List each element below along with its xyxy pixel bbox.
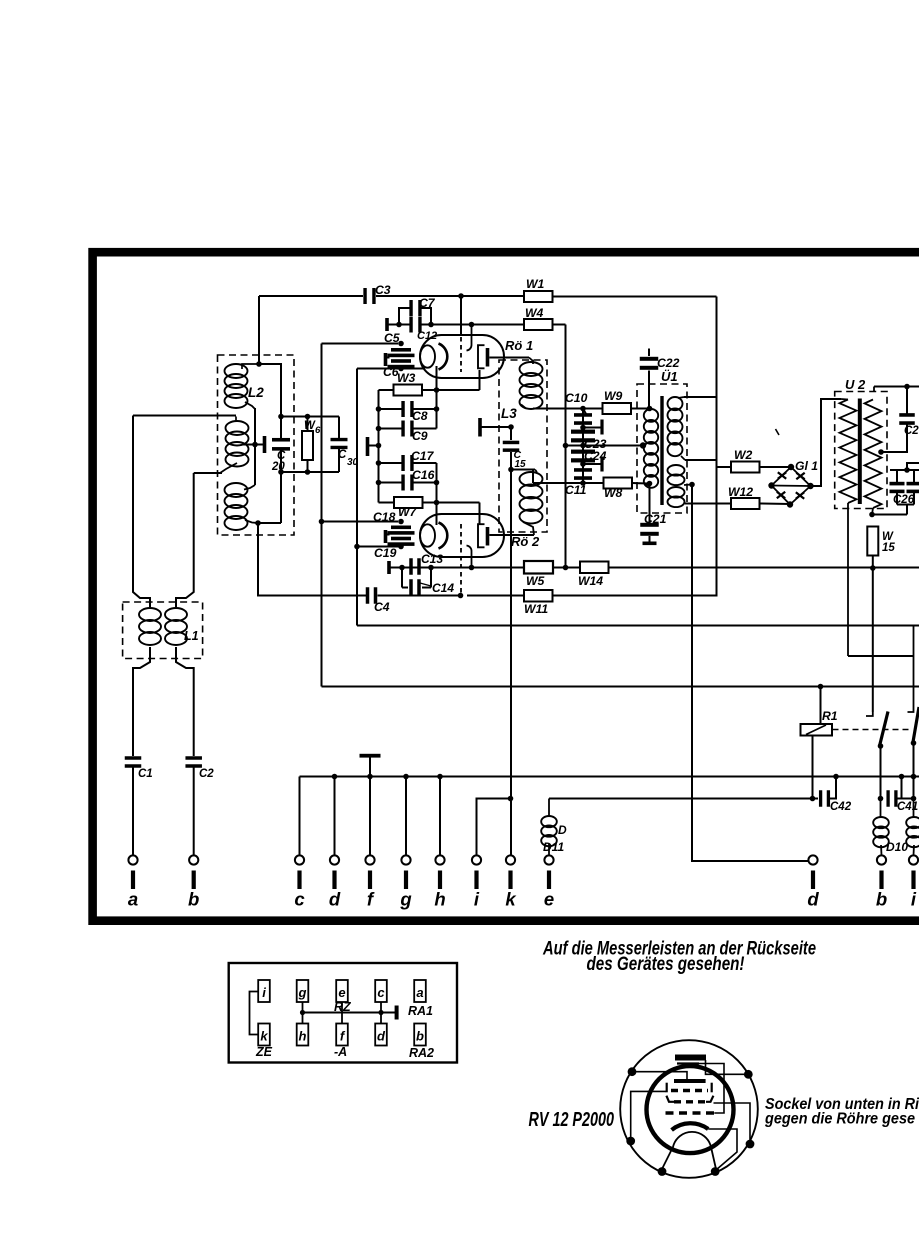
wire L2 w2 top out [133, 415, 236, 417]
resistor W3 [394, 385, 423, 396]
wire R1 top [820, 687, 822, 725]
wire C9 row [379, 428, 437, 430]
tube Roe1 cathode circle [420, 345, 435, 367]
relay R1 [801, 724, 833, 736]
socket pin 5 [658, 1167, 667, 1176]
wire C3 row left [259, 295, 363, 297]
core U2 [858, 399, 862, 505]
wire c drop [299, 777, 301, 856]
svg-text:W11: W11 [524, 602, 548, 616]
node C24-C11 [580, 461, 586, 467]
svg-text:RA1: RA1 [408, 1004, 433, 1018]
connector bracket i-k [250, 992, 259, 1035]
wire sec top lead [684, 396, 717, 398]
svg-text:b: b [876, 889, 887, 910]
coil D10 [873, 799, 889, 856]
wire W1 to right [553, 296, 717, 298]
wire C19 left [357, 546, 401, 548]
svg-text:gegen die Röhre gese: gegen die Röhre gese [764, 1111, 915, 1128]
linkage dashed [833, 729, 912, 731]
node C8 left [376, 406, 382, 412]
svg-text:U 2: U 2 [845, 377, 866, 392]
coil L2 winding 3 [225, 483, 259, 530]
tube Roe2 envelope [420, 514, 504, 557]
terminal a [128, 855, 138, 909]
socket pin 6 [711, 1167, 720, 1176]
wire C6 to cathode circle [401, 368, 425, 370]
node W3/cathode [434, 387, 440, 393]
node shield stub [376, 443, 382, 449]
shield stub C7 row [385, 318, 399, 331]
wire C8 row [379, 408, 437, 410]
capacitor C5 C6 stack [388, 348, 415, 368]
wire C12 to W4 [420, 324, 524, 326]
svg-text:C6: C6 [383, 365, 399, 379]
svg-text:W2: W2 [734, 448, 753, 462]
rectifier Gl1 [768, 464, 813, 508]
svg-text:C19: C19 [374, 546, 397, 560]
svg-text:b: b [416, 1029, 424, 1044]
node C8 right [434, 406, 440, 412]
node connector g [300, 1010, 305, 1015]
svg-text:Ü1: Ü1 [661, 369, 678, 384]
socket pin 4 [746, 1140, 755, 1149]
coil UE1 secondary lower [668, 465, 693, 507]
resistor W14 [580, 562, 609, 574]
coil L2 winding 1 [225, 364, 260, 409]
wire W6 bottom rail [281, 471, 339, 473]
socket cathode arc [672, 1123, 709, 1130]
wire rail 656 [848, 655, 914, 657]
connector cell e [336, 980, 348, 1002]
capacitor C24 [571, 450, 595, 463]
svg-text:C4: C4 [374, 600, 390, 614]
connector box [229, 963, 457, 1063]
wire C26 bottom bracket [897, 493, 914, 515]
coil L1 winding right [165, 608, 187, 645]
svg-text:15: 15 [882, 542, 895, 554]
connector cell k2 [258, 1024, 270, 1046]
wire rail 625 [357, 625, 919, 627]
wire bus 776 [300, 776, 919, 778]
capacitor C23 [571, 430, 595, 443]
socket pin 2 [744, 1070, 753, 1079]
resistor W1 [524, 291, 553, 302]
wire L2 bottom drop [258, 523, 366, 596]
wire C6 left [357, 368, 401, 370]
terminal i right [909, 855, 918, 909]
wire U2 tap [881, 423, 907, 452]
coil D12 [906, 799, 919, 856]
node tap C23 line [563, 443, 569, 449]
svg-text:i: i [474, 889, 480, 910]
svg-text:a: a [128, 889, 138, 910]
connector stub g-h [302, 1002, 304, 1024]
resistor W4 [524, 319, 553, 330]
svg-text:30: 30 [347, 457, 359, 468]
svg-text:C: C [338, 449, 347, 461]
svg-text:d: d [329, 889, 341, 910]
svg-text:d: d [377, 1029, 386, 1044]
tube Roe2 grid dashes [460, 524, 462, 556]
svg-text:D10: D10 [886, 840, 908, 854]
wire C23 tap to primary [566, 445, 644, 447]
wire W6 leads [307, 417, 309, 473]
wire C25 top [906, 387, 908, 416]
svg-text:C22: C22 [657, 356, 680, 370]
resistor W11 [524, 590, 553, 602]
coil U2 left winding [840, 399, 857, 656]
wire W2 left [717, 466, 732, 468]
wire C2 to terminal b [193, 768, 195, 856]
tube Roe1 screen hook [467, 325, 472, 351]
socket pin 3 [626, 1137, 635, 1146]
wire C22 down [648, 371, 650, 409]
node C3/W1 to grid Roe1 [458, 293, 464, 299]
socket grid3 row [666, 1096, 713, 1102]
resistor W9 [603, 403, 632, 414]
capacitor C27 [907, 482, 919, 493]
resistor W5 [524, 561, 553, 574]
wire R1 bottom [812, 736, 814, 799]
node C6 bottom [398, 366, 404, 372]
svg-text:Rö 2: Rö 2 [511, 534, 540, 549]
svg-text:15: 15 [515, 459, 527, 470]
svg-text:RV 12 P2000: RV 12 P2000 [529, 1109, 615, 1131]
node R1 top [818, 684, 824, 690]
svg-text:RZ: RZ [334, 1000, 352, 1014]
svg-text:C3: C3 [375, 283, 391, 297]
wire C12 row [399, 324, 411, 326]
node primary tap [640, 442, 646, 448]
svg-text:W1: W1 [526, 277, 545, 291]
capacitor C11 [574, 468, 592, 480]
wire bias rail left [378, 390, 380, 503]
wire g drop [405, 777, 407, 856]
shield stub bias [366, 437, 379, 456]
svg-text:C7: C7 [419, 296, 436, 310]
connector cell i [258, 980, 270, 1002]
shield stub L3 [478, 418, 511, 437]
tube Roe1 anode bar [486, 348, 490, 367]
node C23-C24 [580, 443, 586, 449]
wire W3 left [379, 389, 394, 391]
svg-text:i: i [911, 889, 917, 910]
socket pin 1 [628, 1067, 637, 1076]
svg-text:L2: L2 [248, 385, 264, 400]
node C11 bottom [580, 480, 586, 486]
node C20 top rail [278, 414, 284, 420]
wire C22 stub top [648, 349, 650, 357]
connector cell a [414, 980, 426, 1002]
wire S2 down [913, 743, 915, 799]
wire W9 right [631, 408, 650, 410]
coil L3 lower [520, 470, 543, 536]
coil box UE1 [637, 384, 687, 513]
wire rail x357 [356, 369, 358, 626]
coil L2 winding 2 [220, 417, 249, 474]
terminal d [329, 855, 341, 909]
wire C23 branch [583, 427, 602, 429]
wire C10 tick [583, 409, 586, 415]
wire d drop [334, 777, 336, 856]
wire L2 tap lead [243, 444, 265, 446]
svg-text:a: a [416, 985, 423, 1000]
node Roe2 grid line bottom [458, 593, 464, 599]
wire W3 right [422, 389, 480, 391]
wire L3 tap down [510, 427, 512, 440]
wire C24 branch [583, 463, 602, 465]
svg-text:c: c [377, 985, 385, 1000]
node grid Roe2 row [469, 565, 475, 571]
svg-text:C1: C1 [138, 768, 153, 780]
wire h drop [439, 777, 441, 856]
node W5 W14 [563, 565, 569, 571]
wire U2 tap2 to W15 [872, 514, 907, 516]
wire C17 row [379, 462, 437, 464]
connector cell d2 [375, 1024, 387, 1046]
wire W11 right [553, 297, 717, 596]
capacitor C1 [125, 756, 142, 768]
svg-text:R1: R1 [822, 709, 838, 723]
node S2 bus [911, 774, 917, 780]
label C20 [271, 450, 286, 473]
node C26 bracket [904, 467, 910, 473]
connector bus RZ [303, 1012, 396, 1014]
wire C30 leads [338, 417, 340, 473]
svg-text:e: e [544, 889, 554, 910]
wire L3 lower hook [511, 469, 535, 471]
tube Roe1 anode bracket [478, 345, 485, 368]
svg-text:k: k [260, 1029, 268, 1044]
svg-text:C13: C13 [421, 552, 443, 566]
node C7 right [428, 322, 434, 328]
terminal k [505, 855, 517, 909]
node L3 tap [508, 424, 514, 430]
capacitor trimmer bar C24 [600, 457, 603, 472]
wire C41 bus stub [901, 777, 903, 799]
wire rail W5 row [390, 567, 919, 569]
svg-text:e: e [338, 985, 345, 1000]
wire C18 feed [322, 521, 399, 523]
svg-text:W9: W9 [604, 389, 623, 403]
wire C41 right [896, 798, 914, 800]
switch S2 [908, 626, 919, 746]
shield stub C18 [384, 530, 390, 543]
node connector c [378, 1010, 383, 1015]
resistor W8 [604, 478, 633, 489]
svg-text:Gl 1: Gl 1 [795, 459, 818, 473]
resistor W2 [731, 462, 760, 473]
svg-text:C2: C2 [199, 768, 214, 780]
socket grid4 row [666, 1111, 715, 1114]
wire Roe1 cathode down [436, 366, 438, 390]
svg-text:C2: C2 [904, 425, 919, 437]
svg-text:L3: L3 [501, 406, 517, 421]
core UE1 [660, 396, 663, 505]
node C20 bottom rail [278, 469, 284, 475]
node L2 top [256, 361, 262, 367]
wire C26 top bracket [890, 463, 919, 482]
resistor W6 [302, 431, 313, 460]
svg-text:k: k [505, 889, 517, 910]
capacitor C4 [366, 587, 378, 604]
coil box U2 [835, 392, 887, 509]
node primary bottom [647, 481, 653, 487]
wire Gl1 to U2 [811, 399, 842, 486]
tube Roe1 grid dashes [460, 337, 462, 372]
wire U2 right top [874, 386, 919, 388]
svg-text:6: 6 [315, 425, 321, 436]
label W15 [882, 531, 895, 554]
socket wire pin1 [632, 1072, 687, 1079]
wire UE1 tap down [692, 485, 808, 862]
wire rail 686 [322, 686, 919, 688]
svg-text:C5: C5 [384, 331, 400, 345]
node C10 top [580, 406, 586, 412]
coil L3 upper [520, 358, 543, 410]
capacitor C13 [387, 558, 421, 575]
connector bus bar [395, 1006, 399, 1020]
svg-text:C42: C42 [830, 801, 852, 813]
tick mark near U2 [776, 429, 780, 435]
svg-text:L1: L1 [184, 629, 199, 643]
capacitor C14 [402, 568, 431, 596]
wire C1 to terminal a [132, 768, 134, 856]
wire S1 to C41 [880, 746, 882, 799]
label C30 [338, 449, 359, 468]
wire f drop [369, 777, 371, 856]
wire Roe2 screen down [479, 503, 481, 525]
node R1 bottom joint [810, 796, 816, 802]
terminal e [544, 855, 554, 909]
wire antenna left drop [133, 416, 150, 608]
capacitor C3 [363, 288, 375, 304]
connector stub c-d [380, 1002, 382, 1024]
capacitor C21 [640, 484, 659, 546]
label W6 [304, 420, 321, 436]
svg-text:D: D [558, 823, 567, 837]
terminal d right [807, 855, 819, 909]
svg-text:W3: W3 [397, 371, 416, 385]
wire D11 row [549, 798, 818, 800]
wire rail W11 row [378, 595, 461, 597]
node sec center tap [689, 482, 695, 488]
node W6 bottom [305, 469, 311, 475]
node C7 left [396, 322, 402, 328]
capacitor C30 [331, 438, 348, 449]
wire Roe2 anode lead [489, 534, 534, 536]
capacitor C10 [574, 413, 592, 425]
svg-text:g: g [399, 889, 411, 910]
switch S1 [866, 712, 888, 749]
svg-text:W4: W4 [525, 306, 544, 320]
svg-text:i: i [262, 985, 266, 1000]
capacitor trimmer bar C23 [600, 420, 603, 435]
capacitor C15 [503, 441, 520, 452]
socket key [675, 1055, 706, 1064]
capacitor C26 [890, 482, 905, 493]
wire grid feed Roe1 [460, 296, 462, 336]
shield stub L2 tap [263, 436, 267, 453]
wire C3 drop [258, 296, 260, 364]
resistor W7 [394, 497, 423, 508]
terminal b right [876, 855, 887, 909]
wire Roe2 cathode up [436, 503, 438, 526]
node C19 rail [354, 544, 360, 550]
wire W12 right [760, 503, 791, 506]
wire W9 left [583, 408, 603, 410]
socket wire pin2 [706, 1060, 749, 1074]
svg-text:h: h [299, 1029, 307, 1044]
capacitor C17 [401, 455, 413, 471]
node rail x321 C18 [319, 519, 325, 525]
wire Roe1 anode lead [489, 357, 529, 359]
capacitor C2 [185, 756, 202, 768]
connector cell f2 [336, 1024, 348, 1046]
wire switch1 feed [872, 568, 874, 712]
terminal b [188, 855, 199, 909]
connector cell c [375, 980, 387, 1002]
capacitor C16 [401, 475, 413, 491]
wire W2 right [760, 466, 792, 468]
node C18 top [398, 519, 404, 525]
node C9 left [376, 426, 382, 432]
socket outer circle [620, 1040, 758, 1178]
node C41 right [911, 796, 917, 802]
wire L2 top to C20 branch [259, 364, 281, 439]
coil D11 [541, 799, 557, 856]
wire C11 row [533, 470, 583, 484]
svg-text:C16: C16 [412, 468, 435, 482]
node L2 bottom [255, 520, 261, 526]
wire C5 feed [322, 343, 399, 345]
svg-text:D11: D11 [543, 840, 564, 854]
capacitor C42 [819, 790, 830, 807]
socket grid2 row [667, 1083, 712, 1093]
label C14 [420, 581, 454, 595]
wire bias rail right lower [436, 463, 438, 503]
wire C3 row right [376, 295, 524, 297]
socket grid bar [674, 1079, 706, 1083]
socket wire pin4 [714, 1103, 751, 1144]
tube Roe2 cathode circle [420, 524, 435, 546]
tube Roe2 anode bar [486, 527, 490, 546]
node C10-C23 [580, 425, 586, 431]
wire W4 to vertical [553, 324, 566, 326]
node i k joint [508, 796, 514, 802]
tube Roe2 cathode arc [439, 523, 448, 549]
terminal c [294, 855, 305, 909]
svg-text:C41: C41 [897, 801, 918, 813]
coil box L3 [499, 360, 547, 532]
capacitor C12 [409, 317, 421, 333]
svg-text:C8: C8 [412, 409, 428, 423]
terminal h [434, 855, 445, 909]
node L3 lower top [508, 467, 514, 473]
shield stub C5 [384, 353, 390, 366]
node C13 left [399, 565, 405, 571]
node C16 left [376, 480, 382, 486]
svg-text:h: h [434, 889, 445, 910]
node f bus [367, 774, 373, 780]
svg-text:W12: W12 [728, 485, 753, 499]
terminal i [472, 855, 481, 909]
socket heater dome [662, 1132, 716, 1169]
wire W15 bottom [872, 556, 874, 569]
node C41 left [878, 796, 884, 802]
wire grid feed Roe2 [460, 556, 462, 596]
